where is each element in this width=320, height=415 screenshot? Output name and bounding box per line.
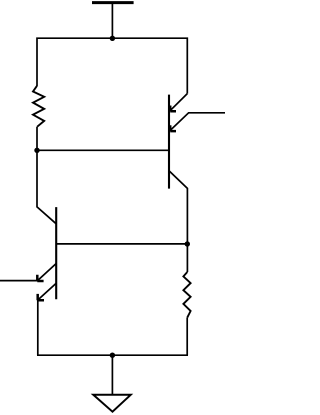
wire ground stem [111,355,113,395]
wire Q2 emitter 2 down to bottom rail [37,300,39,355]
transistor Q1 emitter 1 arrowhead [170,106,176,112]
transistor Q2 emitter 1 arrowhead [37,275,43,281]
ground [93,395,130,412]
wire R1 to node A [36,127,38,151]
transistor Q1 emitter 1 from rail [170,94,187,111]
wire VCC stem [111,3,113,39]
junction Q1 collector / Q2 base [185,241,190,246]
wire R2 to bottom rail [186,318,188,356]
transistor Q2 (NPN) base bar [55,207,57,299]
wire bottom rail [37,354,188,356]
wire top rail [37,38,187,93]
transistor Q2 emitter 2 arrowhead [38,294,44,300]
wire Q1 emitter 2 to right edge [170,113,225,131]
node A junction [34,148,39,153]
junction bottom rail [110,353,115,358]
resistor R1 [33,86,44,127]
junction top rail [110,36,115,41]
power supply bar VCC [92,1,134,4]
wire node A to Q1 base [37,149,169,151]
transistor Q2 emitter 2 diagonal [38,283,56,299]
transistor Q2 emitter 1 diagonal [38,264,56,281]
transistor Q1 (PNP) base bar [168,95,170,189]
transistor Q1 collector [169,171,187,272]
wire Q2 emitter 1 to left edge [0,280,38,282]
wire node A down to Q2 collector [37,150,56,224]
wire Q2 base to junction [56,243,187,245]
resistor R2 [183,272,190,318]
transistor Q1 emitter 2 arrowhead [170,125,176,131]
